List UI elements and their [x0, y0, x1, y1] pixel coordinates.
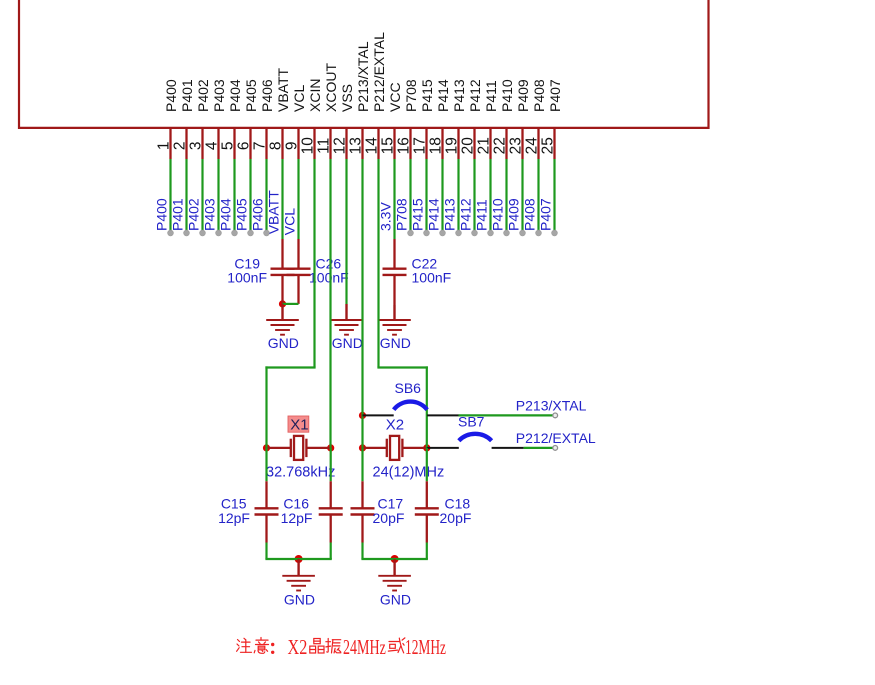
capacitor C16 bottom green lead	[330, 543, 332, 560]
pin 19 stub (P413)	[457, 128, 459, 159]
wire net GND from VSS	[345, 159, 347, 304]
label C19	[234, 255, 260, 271]
wire net XCOUT vertical	[329, 159, 331, 448]
pin 10 name label XCIN	[307, 79, 323, 112]
ground GND under X1 label	[284, 592, 315, 608]
label X1	[290, 416, 308, 433]
pin 24 stub (P408)	[537, 128, 539, 159]
pin 14 stub (P212/EXTAL)	[377, 128, 379, 159]
pin 18 number label	[428, 137, 445, 154]
wire net P413	[457, 159, 459, 233]
svg-text:VBATT: VBATT	[275, 67, 291, 112]
svg-text:15: 15	[380, 137, 397, 154]
svg-text:P405: P405	[234, 198, 250, 231]
svg-text:P402: P402	[195, 79, 211, 112]
pin 3 stub (P402)	[201, 128, 203, 159]
pin 23 stub (P409)	[521, 128, 523, 159]
capacitor C17 bottom green lead	[361, 543, 363, 560]
pin 20 name label P412	[467, 79, 483, 112]
pin 25 name label P407	[547, 79, 563, 112]
pin 8 number label	[268, 141, 285, 150]
wire net XCIN jog	[265, 366, 315, 368]
junction dot X1 pin2	[327, 444, 334, 451]
svg-text:P408: P408	[531, 79, 547, 112]
svg-text:21: 21	[476, 137, 493, 154]
wire net P212/EXTAL to end	[524, 447, 556, 449]
svg-text:P708: P708	[403, 79, 419, 112]
open end dot net P407	[552, 230, 558, 236]
svg-text:12: 12	[332, 137, 349, 154]
SB7 pin wire right	[492, 447, 524, 449]
open end dot net P405	[248, 230, 254, 236]
pin 7 stub (P406)	[265, 128, 267, 159]
svg-text:25: 25	[540, 137, 557, 154]
svg-text:P415: P415	[419, 79, 435, 112]
note text 12MHz	[405, 635, 446, 659]
capacitor C17 red lead upper	[361, 481, 363, 508]
capacitor C16 red lead upper	[330, 481, 332, 508]
pin 12 number label	[332, 137, 349, 154]
capacitor C16 plates	[319, 508, 343, 514]
pin 5 stub (P404)	[233, 128, 235, 159]
open end dot net P708	[408, 230, 414, 236]
svg-text:P410: P410	[490, 198, 506, 231]
capacitor C17 top lead	[361, 448, 363, 481]
svg-text:P404: P404	[227, 79, 243, 112]
capacitor C18 top lead	[426, 448, 428, 481]
label C16	[283, 496, 309, 512]
pin 8 stub (VBATT)	[281, 128, 283, 159]
svg-text:3: 3	[188, 141, 205, 150]
pin 9 name label VCL	[291, 85, 307, 112]
label C18	[445, 496, 471, 512]
svg-text:P403: P403	[211, 79, 227, 112]
wire net P411	[489, 159, 491, 233]
net label P410	[490, 198, 506, 231]
svg-text:GND: GND	[284, 592, 315, 608]
capacitor C22 top lead	[393, 239, 395, 269]
wire net P410	[505, 159, 507, 233]
label SB7	[458, 413, 485, 429]
open end dot net P409	[520, 230, 526, 236]
wire net P412	[473, 159, 475, 233]
wire net P408	[537, 159, 539, 233]
svg-text:18: 18	[428, 137, 445, 154]
capacitor C15 red lead lower	[265, 515, 267, 543]
pin 16 stub (P708)	[409, 128, 411, 159]
note text X2	[288, 635, 308, 659]
capacitor C17 plates	[351, 508, 375, 514]
svg-text:4: 4	[204, 141, 221, 150]
pin 17 stub (P415)	[425, 128, 427, 159]
open end dot net P406	[264, 230, 270, 236]
wire net P405	[249, 159, 251, 233]
junction dot SB6 tee	[359, 412, 366, 419]
svg-text:VBATT: VBATT	[266, 190, 282, 235]
capacitor C19 plates	[271, 269, 295, 275]
note text colon	[271, 643, 274, 654]
open end dot P213/XTAL	[553, 413, 558, 418]
label C15 value 12pF	[218, 510, 250, 526]
crystal X2 plates	[387, 439, 403, 457]
junction dot GND C19/C26	[279, 300, 286, 307]
ground GND under VSS label	[332, 335, 363, 351]
note text glyph 注	[237, 638, 252, 652]
pin 13 number label	[348, 137, 365, 154]
pin 2 number label	[172, 141, 189, 150]
crystal X1 left lead	[268, 447, 291, 449]
note text glyph 晶	[310, 639, 324, 654]
svg-text:24(12)MHz: 24(12)MHz	[373, 464, 445, 480]
pin 21 number label	[476, 137, 493, 154]
pin 25 number label	[540, 137, 557, 154]
svg-text:SB7: SB7	[458, 413, 485, 429]
pin 2 name label P401	[179, 79, 195, 112]
open end dot net P400	[168, 230, 174, 236]
svg-text:P411: P411	[483, 80, 499, 112]
net label P708	[394, 198, 410, 231]
svg-text:P413: P413	[442, 198, 458, 231]
crystal X1 right lead	[306, 447, 329, 449]
net label VBATT	[266, 190, 282, 235]
label C26 value 100nF	[309, 270, 349, 286]
svg-text:P413: P413	[451, 79, 467, 112]
capacitor C17 red lead lower	[361, 515, 363, 543]
solder-bridge SB7 arc	[459, 434, 492, 441]
wire net VCL	[297, 159, 299, 239]
svg-text:P407: P407	[547, 79, 563, 112]
svg-text:P412: P412	[467, 79, 483, 112]
pin 18 name label P414	[435, 79, 451, 112]
svg-text:32.768kHz: 32.768kHz	[266, 464, 335, 480]
svg-text:24MHz: 24MHz	[343, 635, 386, 659]
capacitor C16 top lead	[330, 448, 332, 481]
wire X2 bottom bus	[361, 558, 428, 560]
label C15	[221, 496, 247, 512]
wire net P212/EXTAL vertical	[377, 159, 379, 368]
pin 3 name label P402	[195, 79, 211, 112]
open end dot net P414	[440, 230, 446, 236]
svg-text:19: 19	[444, 137, 461, 154]
pin 15 name label VCC	[387, 82, 403, 112]
pin 1 name label P400	[163, 79, 179, 112]
pin 12 name label VSS	[339, 84, 355, 112]
svg-text:100nF: 100nF	[412, 270, 452, 286]
svg-text:12pF: 12pF	[218, 510, 250, 526]
pin 3 number label	[188, 141, 205, 150]
open end dot net P412	[472, 230, 478, 236]
pin 11 name label XCOUT	[323, 63, 339, 112]
pin 21 stub (P411)	[489, 128, 491, 159]
pin 5 name label P404	[227, 79, 243, 112]
note text glyph 振	[326, 639, 341, 653]
capacitor C16 red lead lower	[330, 515, 332, 543]
capacitor C18 plates	[415, 508, 439, 514]
open end dot net P401	[184, 230, 190, 236]
svg-text:P412: P412	[458, 198, 474, 231]
wire net P407	[553, 159, 555, 233]
pin 11 number label	[316, 138, 333, 154]
net label P401	[170, 198, 186, 231]
pin 1 number label	[156, 141, 173, 150]
pin 14 number label	[364, 137, 381, 155]
svg-text:P212/EXTAL: P212/EXTAL	[516, 430, 596, 446]
junction dot X2 pin1	[359, 444, 366, 451]
pin 10 stub (XCIN)	[313, 128, 315, 159]
capacitor C19 top lead	[281, 239, 283, 269]
net label P415	[410, 198, 426, 231]
pin 15 stub (VCC)	[393, 128, 395, 159]
pin 4 stub (P403)	[217, 128, 219, 159]
svg-text:VCC: VCC	[387, 82, 403, 112]
svg-text:P414: P414	[435, 79, 451, 112]
SB6 pin wire right / wire to P213 label	[427, 414, 458, 416]
ground GND under VSS stub	[345, 304, 347, 320]
svg-text:P213/XTAL: P213/XTAL	[516, 398, 587, 414]
svg-text:GND: GND	[380, 335, 411, 351]
svg-text:VCL: VCL	[291, 85, 307, 112]
net label P406	[250, 198, 266, 231]
svg-text:P411: P411	[474, 199, 490, 231]
label C18 value 20pF	[440, 510, 472, 526]
ground GND under C22 label	[380, 335, 411, 351]
pin 12 stub (VSS)	[345, 128, 347, 159]
svg-text:P414: P414	[426, 198, 442, 231]
junction dot X1 pin1	[263, 444, 270, 451]
svg-text:P409: P409	[515, 79, 531, 112]
pin 8 name label VBATT	[275, 67, 291, 112]
capacitor C19 bottom lead	[281, 275, 283, 304]
wire net VBATT	[281, 159, 283, 239]
wire net P212/EXTAL down to X2	[426, 366, 428, 448]
net label P403	[202, 198, 218, 231]
pin 7 number label	[252, 141, 269, 150]
pin 24 number label	[524, 137, 541, 155]
svg-text:5: 5	[220, 141, 237, 150]
svg-text:P407: P407	[538, 198, 554, 231]
svg-text:P410: P410	[499, 79, 515, 112]
net label P412	[458, 198, 474, 231]
crystal X1 highlight box	[288, 416, 309, 432]
svg-text:P213/XTAL: P213/XTAL	[355, 41, 371, 112]
svg-text:14: 14	[364, 137, 381, 155]
pin 7 name label P406	[259, 79, 275, 112]
crystal X2 left lead	[364, 447, 387, 449]
svg-text:X2: X2	[386, 417, 404, 434]
wire net P708	[409, 159, 411, 233]
pin 4 number label	[204, 141, 221, 150]
svg-text:P708: P708	[394, 198, 410, 231]
wire C26 to GND junction	[283, 303, 299, 305]
crystal X1 body box	[294, 436, 303, 460]
net label P413	[442, 198, 458, 231]
svg-text:20: 20	[460, 137, 477, 155]
svg-text:VSS: VSS	[339, 84, 355, 112]
capacitor C26 top lead	[297, 239, 299, 269]
svg-text:7: 7	[252, 141, 269, 150]
capacitor C22 plates	[383, 269, 407, 275]
pin 22 number label	[492, 137, 509, 154]
wire net P213/XTAL to end	[459, 414, 556, 416]
svg-text:16: 16	[396, 137, 413, 154]
open end dot net P408	[536, 230, 542, 236]
svg-text:P405: P405	[243, 79, 259, 112]
ground GND under X1 stub	[297, 559, 299, 576]
open end dot net P403	[216, 230, 222, 236]
wire net P406	[265, 159, 267, 233]
pin 24 name label P408	[531, 79, 547, 112]
label C16 value 12pF	[281, 510, 313, 526]
pin 9 number label	[284, 141, 301, 150]
svg-text:P406: P406	[259, 79, 275, 112]
ground GND under C19 bars	[266, 320, 299, 335]
label C17	[378, 496, 404, 512]
pin 15 number label	[380, 137, 397, 154]
junction dot X2 GND	[391, 555, 399, 563]
pin 6 stub (P405)	[249, 128, 251, 159]
net label P400	[154, 198, 170, 231]
pin 4 name label P403	[211, 79, 227, 112]
pin 1 stub (P400)	[169, 128, 171, 159]
pin 11 stub (XCOUT)	[329, 128, 331, 159]
svg-text:P406: P406	[250, 198, 266, 231]
svg-text:2: 2	[172, 141, 189, 150]
wire net P409	[521, 159, 523, 233]
ground GND under C19 label	[268, 335, 299, 351]
label C17 value 20pF	[373, 510, 405, 526]
wire X1 bottom bus	[265, 558, 331, 560]
IC U1 body outline	[19, 0, 709, 128]
svg-text:X1: X1	[290, 416, 308, 433]
net label P404	[218, 198, 234, 231]
pin 9 stub (VCL)	[297, 128, 299, 159]
wire net P212/EXTAL jog	[377, 366, 428, 368]
wire net XCIN vertical	[313, 159, 315, 368]
ground GND under C19 stub	[281, 304, 283, 320]
open end dot net P410	[504, 230, 510, 236]
net label P407	[538, 198, 554, 231]
ground GND under C22 bars	[378, 320, 411, 335]
net label P402	[186, 198, 202, 231]
pin 10 number label	[300, 137, 317, 155]
wire net P414	[441, 159, 443, 233]
net label P405	[234, 198, 250, 231]
wire net XCIN down to X1	[265, 366, 267, 448]
open end dot net P413	[456, 230, 462, 236]
wire net P401	[185, 159, 187, 233]
svg-text:1: 1	[156, 141, 173, 150]
note text glyph 或	[388, 638, 405, 653]
label C22 value 100nF	[412, 270, 452, 286]
pin 19 name label P413	[451, 79, 467, 112]
pin 23 name label P409	[515, 79, 531, 112]
svg-text:12MHz: 12MHz	[405, 635, 446, 659]
crystal X2 body box	[390, 436, 399, 460]
svg-text:24: 24	[524, 137, 541, 155]
open end dot net P415	[424, 230, 430, 236]
svg-text:20pF: 20pF	[440, 510, 472, 526]
svg-text:SB6: SB6	[395, 380, 422, 396]
label SB6	[395, 380, 422, 396]
junction dot X2 pin2	[423, 444, 430, 451]
svg-text:8: 8	[268, 141, 285, 150]
pin 16 number label	[396, 137, 413, 154]
svg-text:P212/EXTAL: P212/EXTAL	[371, 32, 387, 112]
svg-text:P409: P409	[506, 198, 522, 231]
svg-text:6: 6	[236, 141, 253, 150]
svg-text:P400: P400	[154, 198, 170, 231]
capacitor C18 red lead lower	[426, 515, 428, 543]
net label VCL	[282, 208, 298, 235]
wire net P403	[217, 159, 219, 233]
capacitor C15 top lead	[265, 448, 267, 481]
pin 25 stub (P407)	[553, 128, 555, 159]
wire net P404	[233, 159, 235, 233]
pin 21 name label P411	[483, 80, 499, 112]
label C22	[412, 255, 438, 271]
svg-text:XCOUT: XCOUT	[323, 63, 339, 112]
SB7 pin wire left	[427, 447, 459, 449]
label X2 value 24(12)MHz	[373, 464, 445, 480]
pin 19 number label	[444, 137, 461, 154]
pin 17 number label	[412, 137, 429, 154]
svg-text:P403: P403	[202, 198, 218, 231]
capacitor C18 red lead upper	[426, 481, 428, 508]
ground GND under VSS bars	[330, 320, 363, 335]
net label P408	[522, 198, 538, 231]
svg-text:23: 23	[508, 137, 525, 154]
SB6 pin wire left	[363, 414, 394, 416]
capacitor C15 plates	[255, 508, 279, 514]
ground GND under X1 bars	[282, 576, 315, 591]
wire net P213/XTAL vertical	[361, 159, 363, 448]
ground GND under X2 label	[380, 592, 411, 608]
svg-text:13: 13	[348, 137, 365, 154]
solder-bridge SB6 arc	[394, 402, 427, 410]
crystal X1 plates	[291, 439, 307, 457]
capacitor C15 red lead upper	[265, 481, 267, 508]
pin 18 stub (P414)	[441, 128, 443, 159]
net label P409	[506, 198, 522, 231]
pin 20 number label	[460, 137, 477, 155]
svg-text:GND: GND	[380, 592, 411, 608]
pin 22 stub (P410)	[505, 128, 507, 159]
note text 24MHz	[343, 635, 386, 659]
svg-text:P400: P400	[163, 79, 179, 112]
note text glyph 意	[254, 638, 268, 654]
open end dot net P411	[488, 230, 494, 236]
pin 5 number label	[220, 141, 237, 150]
pin 13 stub (P213/XTAL)	[361, 128, 363, 159]
svg-text:P401: P401	[179, 79, 195, 112]
svg-text:100nF: 100nF	[227, 270, 267, 286]
junction dot X1 GND	[295, 555, 303, 563]
pin 13 name label P213/XTAL	[355, 41, 371, 112]
svg-text:P408: P408	[522, 198, 538, 231]
ground GND under C22 stub	[393, 305, 395, 320]
pin 16 name label P708	[403, 79, 419, 112]
wire net P402	[201, 159, 203, 233]
svg-text:3.3V: 3.3V	[378, 202, 394, 231]
capacitor C22 bottom lead	[393, 275, 395, 305]
label X2	[386, 417, 404, 434]
svg-text:P404: P404	[218, 198, 234, 231]
net label P212/EXTAL	[516, 430, 596, 446]
svg-text:GND: GND	[332, 335, 363, 351]
pin 22 name label P410	[499, 79, 515, 112]
net label P213/XTAL	[516, 398, 587, 414]
net label P414	[426, 198, 442, 231]
